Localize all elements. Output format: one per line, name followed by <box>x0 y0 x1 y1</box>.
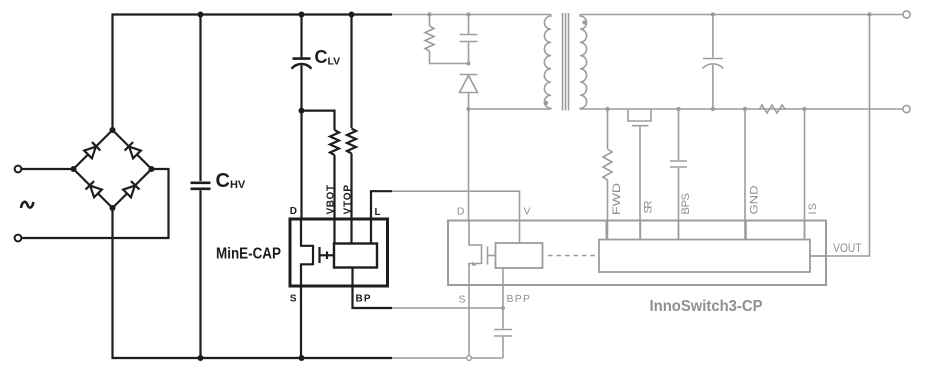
svg-text:D: D <box>457 206 465 218</box>
transistor Q2 (InnoSwitch primary FET) <box>469 221 481 246</box>
node: IS tap <box>802 107 806 111</box>
diode DC1 (clamp blocking) <box>460 74 478 76</box>
diode D3 (bottom-left edge) <box>86 181 103 198</box>
wire: AC neutral to bridge right node <box>22 169 169 238</box>
wire: VBOT pin <box>333 155 335 219</box>
capacitor CBPS <box>678 109 680 160</box>
AC source symbol ~ <box>21 202 33 208</box>
svg-text:D: D <box>290 206 297 217</box>
node: BPS tap <box>676 107 680 111</box>
node: bridge left <box>71 166 77 172</box>
capacitor CBPP <box>494 329 512 331</box>
wire: clamp resistor top connection / node <box>429 15 431 27</box>
capacitor CHV <box>199 15 201 182</box>
capacitor CLV <box>300 15 302 58</box>
diode D1 (left-top edge) <box>84 142 101 159</box>
wire: bridge bottom to bottom rail <box>113 208 393 358</box>
wire: BPS inside <box>677 221 679 240</box>
node: bridge top <box>110 127 116 133</box>
resistor R-VTOP <box>350 15 352 129</box>
black labels <box>21 47 381 305</box>
capacitor CC1 (clamp) <box>468 15 470 34</box>
wire: BP-BPP link (gray part) <box>392 307 503 309</box>
node: CHV top <box>198 12 204 18</box>
wire: VOUT feedback vertical <box>810 15 870 257</box>
IC U2 InnoSwitch3-CP outer box <box>448 221 826 286</box>
wire: VBOT inside <box>333 219 335 244</box>
resistor R-VBOT <box>330 130 339 155</box>
wire: gray bottom rail <box>390 357 503 359</box>
svg-text:BPP: BPP <box>507 293 531 305</box>
resistor RC1 (clamp) <box>425 26 434 51</box>
svg-text:BPS: BPS <box>680 193 692 215</box>
node: bridge right <box>149 166 155 172</box>
transformer T1 secondary winding <box>580 15 587 110</box>
bridge rectifier BR1 diamond <box>74 130 152 208</box>
wire: BPP pin down <box>502 268 504 285</box>
wire: VTOP inside <box>350 219 352 244</box>
diode D2 (right-top edge) <box>125 142 142 159</box>
wire: L pin to V node <box>371 191 392 219</box>
wire: drain node to transformer primary bottom <box>469 108 552 110</box>
wire: L inside <box>370 219 372 244</box>
wire: clamp resistor bottom <box>430 51 469 64</box>
wire: IS inside <box>804 221 806 240</box>
terminal: AC line input <box>15 166 22 173</box>
svg-text:VTOP: VTOP <box>343 185 354 215</box>
IC U2 secondary controller block <box>599 240 810 273</box>
transistor Q1 (MinE-CAP internal FET) <box>301 219 313 246</box>
wire: secondary bottom rail <box>580 108 903 110</box>
wire: gray top primary rail <box>390 14 551 16</box>
wire: junction to VBOT resistor <box>302 111 335 130</box>
wire: BPP external <box>502 285 504 329</box>
resistor RFWD <box>607 109 609 149</box>
svg-text:V: V <box>524 206 531 218</box>
wire: drain vertical down to InnoSwitch D pin <box>468 109 470 221</box>
wire: VOUT pin from secondary controller <box>810 255 826 257</box>
svg-text:BP: BP <box>356 294 371 305</box>
wire: S pin down to rail <box>468 285 470 358</box>
wire: FWD inside <box>605 221 607 240</box>
IC U1 controller block <box>334 244 377 268</box>
capacitor COUT (output) <box>712 15 714 58</box>
wire: IS pin <box>804 109 806 240</box>
svg-text:MinE-CAP: MinE-CAP <box>216 246 281 263</box>
wire: D pin (CLV junction down to IC) <box>300 111 302 219</box>
svg-text:L: L <box>375 207 381 218</box>
node: clamp/drain junction <box>467 62 471 66</box>
resistor RIS (current sense, inline) <box>760 105 788 113</box>
svg-text:VOUT: VOUT <box>833 241 862 255</box>
diode D4 (bottom-right edge) <box>123 181 140 198</box>
wire: BP pin <box>353 268 393 309</box>
node: CLV bottom / D pin junction <box>299 108 305 114</box>
svg-text:InnoSwitch3-CP: InnoSwitch3-CP <box>650 298 763 315</box>
transformer primary phase dot <box>544 101 548 105</box>
node: bridge bottom <box>110 205 116 211</box>
svg-text:IS: IS <box>807 203 819 215</box>
node: VTOP resistor top <box>349 12 355 18</box>
svg-text:FWD: FWD <box>611 183 623 215</box>
node: output cap top <box>711 12 715 16</box>
node: CLV top <box>299 12 305 18</box>
transformer T1 core <box>562 13 564 111</box>
gray labels <box>457 183 862 315</box>
node: S pin on bottom rail <box>299 355 305 361</box>
IC U1 MinE-CAP box <box>290 219 388 286</box>
wire: S pin down to rail <box>300 287 302 359</box>
svg-text:SR: SR <box>643 200 655 213</box>
node: S on bottom rail <box>467 356 472 361</box>
wire: bridge top to top rail <box>113 15 393 131</box>
svg-text:S: S <box>290 294 297 305</box>
wire: V pin from L node <box>392 191 520 242</box>
svg-text:S: S <box>458 294 465 306</box>
transformer T1 primary winding <box>544 15 551 110</box>
svg-text:VBOT: VBOT <box>326 185 337 215</box>
wire: VTOP pin <box>350 154 352 220</box>
transistor QSR (sync rectifier) <box>628 109 651 121</box>
wire: SR inside <box>639 221 641 240</box>
dashed link primary-secondary <box>548 255 596 257</box>
terminal: VOUT+ output <box>903 11 910 18</box>
wire: AC line to bridge left node <box>22 168 74 170</box>
svg-text:GND: GND <box>749 185 761 214</box>
wire: GND inside <box>745 221 747 240</box>
IC U2 primary controller block <box>496 243 543 268</box>
terminal: AC neutral input <box>15 235 22 242</box>
node: CHV bottom <box>198 355 204 361</box>
node: GND tap <box>743 107 747 111</box>
transformer secondary phase dot <box>582 20 586 24</box>
terminal: VOUT- output <box>903 105 910 112</box>
node: vout feedback top <box>867 12 871 16</box>
wire: GND pin <box>744 109 746 240</box>
node: FWD tap <box>605 107 609 111</box>
wire: secondary top rail to VOUT+ <box>580 14 903 16</box>
